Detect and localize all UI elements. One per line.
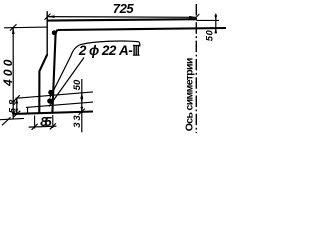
chain bottom serif tick (79, 109, 85, 115)
right 50 arrows (outside) (214, 15, 217, 33)
rib right edge with fillet from flange bottom (52, 30, 57, 112)
dimension 725 line (47, 16, 196, 19)
dimension 400 bottom arrow (2, 112, 15, 125)
svg-text:33: 33 (72, 115, 83, 128)
svg-text:400: 400 (1, 59, 15, 87)
dimension 725 right arrow (189, 14, 199, 20)
lower rebar dot (47, 98, 52, 103)
chain arrows (80, 93, 83, 112)
rib bottom line (ext for 58/33) (14, 112, 93, 114)
right 50 dimension line (215, 14, 217, 34)
dimension 85 ext lines (34, 116, 36, 129)
label roman III bars (134, 46, 138, 55)
svg-text:Ось симметрии: Ось симметрии (184, 58, 196, 132)
dimension 58 serif ticks (14, 95, 20, 101)
flange bottom edge (58, 28, 227, 30)
svg-text:50: 50 (72, 79, 83, 90)
dimension 400 top arrow (10, 24, 17, 34)
leader line 2 to lower dot (49, 58, 84, 107)
dimension 85 serif ticks (32, 124, 38, 130)
dimension 58 line (16, 98, 18, 114)
dimension 85 line (29, 125, 57, 128)
dimension 400 top ext line (4, 26, 48, 29)
upper rebar extension line (16, 92, 94, 98)
small tick at foot left (27, 108, 29, 114)
svg-text:725: 725 (113, 1, 135, 16)
lower rebar extension line (26, 102, 93, 107)
chain dimension line 50/33 (81, 79, 83, 132)
top corner rebar dot (52, 30, 57, 35)
svg-text:2 ϕ 22 A-: 2 ϕ 22 A- (78, 43, 133, 58)
upper rebar dot (48, 90, 53, 95)
right 50 top ext line (196, 19, 219, 21)
dimension 400 bottom ext line (0, 118, 24, 119)
rib left edge lower part (39, 55, 47, 114)
extension line left end of 725 / rib left edge top (46, 11, 48, 55)
dimension 58 arrows (16, 98, 19, 114)
svg-text:50: 50 (204, 29, 215, 41)
dimension 725 left arrow (45, 14, 55, 20)
axis of symmetry dash-dot line (195, 4, 197, 133)
flange top edge (47, 19, 196, 20)
svg-text:85: 85 (40, 114, 52, 129)
dimension 400 line (12, 27, 14, 118)
leader with shelf over label and curve to upper dot (50, 41, 140, 97)
